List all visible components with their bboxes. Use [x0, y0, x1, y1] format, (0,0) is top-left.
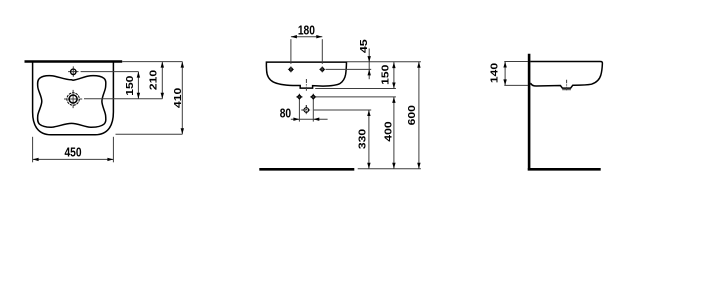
svg-text:450: 450	[64, 146, 81, 160]
dimension 150 (front view)	[380, 62, 395, 88]
top view: inner bowl flower contour	[38, 76, 106, 128]
top view: faucet extension line	[81, 71, 139, 73]
front view: left fixing hole	[296, 94, 302, 100]
top view: basin bottom extension line	[116, 133, 183, 135]
dimension 45 (front view)	[359, 39, 371, 79]
front view: right fixing hole	[310, 94, 316, 100]
dimension 150 (top view)	[125, 72, 140, 99]
front view: right tap hole mark	[319, 66, 325, 72]
side view: drain axis line	[562, 80, 571, 92]
front view: right fixing witness line	[312, 100, 314, 122]
top view: wall line	[25, 60, 123, 63]
svg-text:150: 150	[125, 75, 136, 95]
svg-text:140: 140	[490, 63, 501, 83]
front view: drain axis line	[305, 79, 307, 92]
dimension 330 (front view)	[358, 110, 371, 169]
svg-text:45: 45	[359, 39, 370, 53]
dimension 410 (top view)	[173, 62, 184, 135]
front view: fixing holes extension line	[316, 96, 396, 98]
front view: floor extension line	[358, 168, 421, 170]
side view: floor line	[528, 168, 601, 171]
front view: left tap hole mark	[288, 66, 294, 72]
dimension 210 (top view)	[149, 62, 164, 99]
top view: drain crosshair	[64, 90, 82, 108]
side view: rim extension line	[504, 61, 528, 63]
svg-text:600: 600	[407, 105, 418, 125]
top view: faucet hole circle	[71, 69, 76, 74]
top view: drain extension line	[84, 98, 162, 100]
svg-text:150: 150	[380, 64, 391, 84]
top view: drain outer circle	[67, 93, 79, 105]
top view: wall extension line to right dims	[122, 61, 182, 63]
front view: rim extension line	[347, 61, 421, 63]
front view: tab bottom extension line	[315, 88, 396, 90]
top view: basin outer body	[33, 62, 114, 135]
front view: trap extension line	[314, 109, 371, 111]
dimension 450 (top view)	[33, 137, 114, 163]
svg-text:80: 80	[280, 107, 291, 121]
front view: trap crosshair	[301, 105, 311, 115]
top view: drain inner circle	[69, 95, 77, 103]
dimension 140 (side view)	[490, 62, 507, 86]
dimension 180 (front view)	[291, 24, 322, 64]
svg-text:180: 180	[298, 24, 315, 38]
front view: basin outline with drain tab	[266, 62, 346, 88]
dimension 400 (front view)	[383, 97, 395, 169]
side view: bottom extension line	[504, 84, 528, 86]
svg-text:210: 210	[149, 70, 160, 90]
svg-text:330: 330	[358, 129, 369, 149]
front view: left fixing witness line	[298, 100, 300, 122]
dimension 80 (front view)	[280, 107, 328, 121]
side view: basin profile with drain tab	[530, 62, 602, 89]
svg-text:400: 400	[383, 121, 394, 141]
front view: faucet extension line	[326, 68, 371, 70]
dimension 600 (front view)	[407, 62, 420, 169]
front view: floor line	[259, 168, 354, 171]
svg-text:410: 410	[173, 88, 184, 108]
side view: wall line	[528, 54, 531, 171]
top view: faucet hole crosshair	[68, 66, 78, 76]
